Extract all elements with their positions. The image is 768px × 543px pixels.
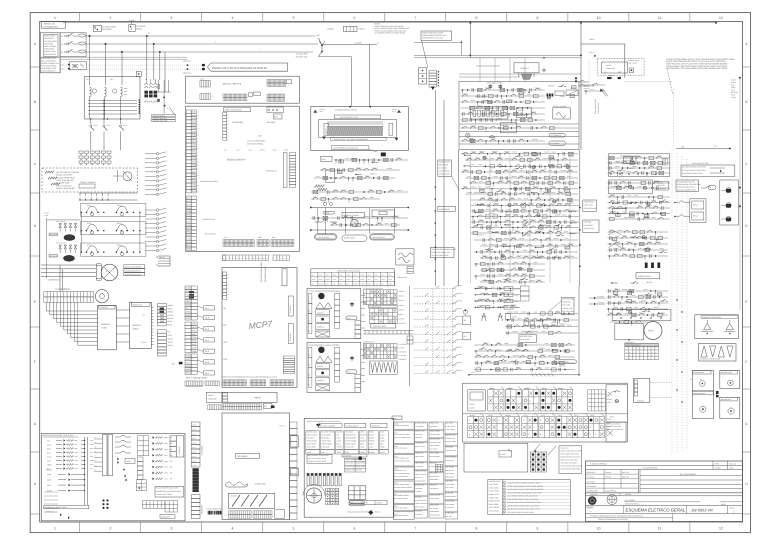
main disconnect switch column (60, 33, 86, 57)
table text columns (306, 431, 389, 450)
svg-text:COM: COM (192, 144, 197, 147)
svg-text:F: F (34, 360, 36, 364)
svg-text:NEUTRO NEUTRO LIGA TEMP: NEUTRO NEUTRO LIGA TEMP (682, 165, 707, 168)
svg-text:CHAVE NEUTRO BORNE COM REL CTR: CHAVE NEUTRO BORNE COM REL CTRL (508, 482, 541, 485)
svg-text:TERM: TERM (126, 460, 131, 463)
svg-text:PLACA B: PLACA B (289, 333, 292, 341)
protection dashed box (42, 168, 138, 192)
svg-text:PLUG SENSOR AGUA NIVEL: PLUG SENSOR AGUA NIVEL (156, 487, 179, 490)
svg-text:C08: C08 (394, 445, 397, 448)
diode rows lower-left (46, 469, 85, 493)
svg-text:A-ALARME: A-ALARME (201, 445, 204, 455)
svg-text:CTRL-8: CTRL-8 (568, 155, 574, 158)
svg-text:AQUEC 2: AQUEC 2 (317, 379, 324, 382)
bottom rail labels right (690, 378, 702, 381)
right margin vertical text (731, 77, 741, 99)
svg-text:24VCC SUPER BAIXA: 24VCC SUPER BAIXA (247, 140, 266, 143)
svg-text:RL-6: RL-6 (205, 361, 209, 364)
MCP1 box (222, 392, 277, 402)
interface connector strip extra (leftside col x191) (192, 424, 197, 467)
MCP pointer table (156, 256, 170, 266)
sensor module S4 (720, 397, 740, 418)
svg-text:RS-485: RS-485 (46, 469, 52, 472)
connector column J5 (dark cells) (158, 304, 175, 327)
TRIAC drive box (695, 315, 739, 339)
svg-text:CTRL AGUA: CTRL AGUA (584, 204, 594, 207)
svg-text:BOMBA TENS SENSOR CHAVE: BOMBA TENS SENSOR CHAVE (156, 490, 182, 493)
heater control block 1 (307, 289, 361, 339)
vertical feeders center (351, 23, 581, 150)
svg-text:NEUTRO AGUA: NEUTRO AGUA (520, 335, 533, 338)
calculation note box (559, 446, 582, 474)
svg-text:TENS: TENS (186, 372, 192, 375)
svg-text:PROJ/VDD: PROJ/VDD (587, 471, 596, 474)
net label 750 (171, 362, 182, 366)
svg-text:8: 8 (529, 406, 530, 409)
left legend text box 2 (40, 57, 60, 73)
svg-text:NEUT-8: NEUT-8 (646, 281, 652, 284)
svg-text:TX: TX (95, 460, 97, 462)
svg-text:STND 01: STND 01 (100, 306, 107, 309)
svg-text:PROGRAMADOR GER: PROGRAMADOR GER (260, 262, 263, 282)
svg-text:⊙ ENCODER: ⊙ ENCODER (55, 288, 70, 291)
ventilator stadium labels (315, 234, 395, 242)
company logo (outline) (607, 495, 617, 505)
svg-text:SENS: SENS (186, 368, 192, 371)
hot water table (681, 162, 735, 176)
svg-text:PROGRAMA BUS: PROGRAMA BUS (264, 266, 267, 282)
svg-text:MOTO: MOTO (187, 227, 193, 230)
svg-text:15: 15 (228, 133, 230, 135)
keyboard bar (371, 324, 396, 329)
switch taps left of REG (674, 201, 690, 217)
svg-text:12: 12 (198, 172, 200, 174)
vertical signal text column (594, 98, 600, 114)
svg-text:PPM: PPM (715, 462, 719, 465)
svg-text:12: 12 (228, 117, 230, 119)
sensor module S2 (720, 371, 740, 389)
sensor lower box contents (top-left of row4) (606, 422, 626, 442)
svg-text:TENS SENSOR BOMBA CHAVE: TENS SENSOR BOMBA CHAVE (431, 248, 457, 251)
right lower chains above motor (610, 319, 648, 326)
svg-text:L2: L2 (61, 43, 63, 46)
left columns of legend table (between x414-458) (415, 422, 458, 519)
svg-text:BI BI BI: BI BI BI (231, 495, 237, 498)
module MODULO MCP7-B box (186, 76, 300, 103)
svg-text:FASE: FASE (192, 438, 196, 440)
svg-text:MOTOR LIGA TERM MOTOR PROG TEM: MOTOR LIGA TERM MOTOR PROG TEMP (508, 501, 542, 504)
control box inner wires (461, 86, 579, 144)
svg-text:JOA TELEFONICA: JOA TELEFONICA (680, 473, 698, 476)
svg-text:1:1: 1:1 (589, 510, 592, 513)
svg-text:13: 13 (228, 114, 230, 116)
svg-text:AQUEC 1: AQUEC 1 (317, 365, 324, 368)
connector CN top (327, 27, 365, 32)
svg-text:TEMP: TEMP (192, 346, 198, 349)
svg-text:CLAVE: CLAVE (469, 407, 475, 410)
net labels COM6 FULL7 (589, 38, 595, 54)
svg-text:RL-1: RL-1 (205, 307, 209, 310)
svg-text:CP-4: CP-4 (123, 124, 127, 127)
svg-text:GERAL MOTOR BUS: GERAL MOTOR BUS (224, 109, 242, 112)
MCP7 box left pin cells (223, 272, 229, 300)
truth table extra ink (489, 388, 564, 390)
module MC16X55J box (222, 413, 290, 520)
motor feed wires (41, 265, 96, 291)
darlington triple dark bars (645, 263, 660, 269)
module right edge strip (290, 422, 299, 520)
main motor M~ (644, 322, 662, 340)
svg-text:B: B (745, 100, 747, 104)
wye junction node (296, 34, 379, 59)
svg-text:BOMBA GERAL: BOMBA GERAL (638, 275, 651, 278)
thermostat callout (583, 220, 599, 233)
svg-text:SAIDA SENSOR CABO BOMBA FASE T: SAIDA SENSOR CABO BOMBA FASE TEMP (508, 491, 543, 494)
svg-text:12: 12 (719, 16, 723, 20)
svg-text:TX: TX (95, 456, 97, 458)
relay field vertical links (470, 155, 570, 283)
svg-text:VIDE PAG 03: VIDE PAG 03 (266, 170, 277, 173)
svg-text:INVERSOR GERAL MOTOR: INVERSOR GERAL MOTOR (335, 109, 357, 112)
svg-text:TERM: TERM (186, 304, 192, 307)
svg-text:SAID: SAID (186, 300, 191, 303)
center TABELA grid (311, 269, 395, 286)
interface box extra texture (44, 439, 94, 512)
svg-text:CHAV: CHAV (374, 284, 378, 286)
circuit breaker DJ2 with label (129, 19, 146, 32)
terminal strip column lower (186, 196, 216, 251)
svg-text:INTERLIGACAO PAINEL COM O MCP: INTERLIGACAO PAINEL COM O MCP (43, 434, 75, 437)
svg-text:8: 8 (523, 419, 524, 422)
svg-text:SINAL GERAL: SINAL GERAL (205, 233, 216, 236)
svg-text:ALIM CHAVE: ALIM CHAVE (44, 35, 56, 38)
svg-text:BOMBA NIVEL: BOMBA NIVEL (439, 160, 450, 163)
svg-text:RL-7: RL-7 (205, 372, 209, 375)
svg-text:VALV: VALV (192, 447, 195, 449)
svg-text:VALV TERRA TERRA CTRL ALIM FAS: VALV TERRA TERRA CTRL ALIM FASE (508, 495, 539, 498)
svg-text:MODULO MCP7-B: MODULO MCP7-B (223, 83, 242, 86)
PL relay labels with leaders (197, 306, 214, 375)
svg-text:C-1 PROG: C-1 PROG (398, 343, 407, 346)
svg-text:5: 5 (293, 16, 295, 20)
svg-text:REDE: REDE (192, 442, 196, 444)
resistor group box GRUPO (470, 107, 508, 120)
svg-text:DISJUNT PRN: DISJUNT PRN (296, 53, 309, 56)
row interconnect wires (45, 212, 140, 278)
small slots (350, 501, 365, 506)
three-phase bus wires (86, 32, 318, 53)
svg-text:REL COM TEMP: REL COM TEMP (56, 182, 70, 185)
svg-text:TX: TX (95, 442, 97, 444)
svg-text:NO JOF/OPROAO: NO JOF/OPROAO (643, 467, 659, 470)
svg-text:GERA: GERA (186, 310, 192, 313)
svg-text:C23: C23 (394, 512, 397, 515)
svg-text:TEMP: TEMP (192, 350, 198, 353)
svg-text:SAID: SAID (192, 160, 197, 163)
terminal strip column mid (186, 150, 218, 193)
top right extra chains (584, 83, 605, 94)
transformer T1 (90, 87, 107, 119)
alarm box (553, 105, 571, 119)
svg-text:TECLADO GER: TECLADO GER (373, 325, 387, 328)
svg-text:1: 1 (54, 16, 56, 20)
svg-text:MOTO: MOTO (186, 314, 192, 317)
svg-text:CABO 2: CABO 2 (359, 28, 366, 31)
svg-text:TX: TX (95, 451, 97, 453)
molex note box (421, 31, 452, 68)
aux box left of motor (615, 324, 644, 341)
svg-text:24: 24 (198, 178, 200, 180)
svg-text:UTIL: UTIL (224, 236, 228, 239)
svg-text:REL: REL (381, 275, 384, 277)
processor box MCP7 (222, 268, 297, 388)
svg-text:TEMP: TEMP (353, 284, 357, 286)
svg-text:FIO BUS REL TEMP: FIO BUS REL TEMP (156, 493, 172, 496)
svg-text:RL-2: RL-2 (205, 316, 209, 319)
pump label box (636, 273, 660, 279)
company logo (filled) (586, 496, 597, 508)
top center bus wires extra (414, 43, 581, 82)
relay logic field (464, 153, 577, 281)
module MCP-7 inner extra (223, 113, 289, 152)
svg-text:LIGA NIVEL: LIGA NIVEL (44, 37, 54, 40)
svg-text:20-01-26: 20-01-26 (729, 462, 736, 465)
module bottom combs (228, 510, 284, 519)
svg-text:PLUG PLUG: PLUG PLUG (520, 338, 530, 341)
svg-text:BOMBA REL NEUTRO CTRL GERAL BU: BOMBA REL NEUTRO CTRL GERAL BUS (508, 508, 541, 511)
filter capacitors C1 C2 (487, 82, 504, 90)
svg-text:REL: REL (339, 160, 342, 163)
svg-text:10000010: 10000010 (506, 388, 512, 390)
svg-text:27: 27 (228, 298, 230, 300)
svg-text:U.S.Nome: U.S.Nome (587, 476, 595, 479)
transformer box (85, 77, 141, 120)
center switch rows (115, 435, 135, 481)
svg-text:RL-3: RL-3 (205, 328, 209, 331)
svg-text:NIVE: NIVE (374, 279, 377, 281)
svg-text:SAID: SAID (192, 177, 197, 180)
svg-text:VALV: VALV (367, 279, 370, 281)
svg-text:PESO: PESO (721, 503, 726, 506)
svg-text:MODULO X: MODULO X (133, 303, 143, 306)
svg-text:AGUA QUENTE GER: AGUA QUENTE GER (692, 162, 709, 165)
right section chains y286 (607, 287, 669, 316)
loopback wire box top-right (581, 44, 625, 78)
top bus wire (63, 22, 717, 24)
svg-text:C-3 MOTO: C-3 MOTO (398, 350, 407, 353)
junction dots on field bus (459, 150, 581, 286)
svg-text:FASE-1: FASE-1 (521, 211, 527, 214)
svg-text:E: E (745, 300, 747, 304)
strip part number text (186, 377, 208, 380)
vertical connectors mid (318, 208, 395, 234)
module strip extra pin texts (198, 112, 200, 194)
tick lines (363, 331, 413, 335)
zone D left stubs (458, 286, 463, 371)
bottom combs of strip column (185, 381, 219, 387)
legend rows (503, 480, 571, 515)
module MODULO MCP-7 box (186, 106, 300, 251)
interface section box (41, 433, 185, 521)
svg-text:10101110: 10101110 (489, 388, 495, 390)
svg-text:BORN: BORN (192, 460, 196, 462)
opto-diode rows left (47, 439, 85, 470)
svg-text:AQUEC 2: AQUEC 2 (317, 325, 324, 328)
svg-text:PROG: PROG (192, 326, 198, 329)
svg-text:NEUTRO MOTOR SENSOR: NEUTRO MOTOR SENSOR (56, 171, 80, 174)
svg-text:39b53a76a72423b884b9696532871: 39b53a76a72423b884b9696532871 012a2 a691… (223, 376, 277, 379)
sensor module S1 (692, 371, 713, 392)
tecla boxes row (612, 200, 668, 218)
svg-text:3: 3 (170, 16, 172, 20)
svg-text:NOT PROTECT TYPE: NOT PROTECT TYPE (340, 116, 359, 119)
small switch and oval (701, 186, 716, 190)
lamp indicators (466, 133, 495, 142)
svg-text:TR-2: TR-2 (110, 78, 114, 81)
svg-text:GERAL CHAVE PAINEL: GERAL CHAVE PAINEL (56, 187, 75, 190)
transformer T2 (113, 87, 123, 119)
svg-text:TENS CHAVE BUS: TENS CHAVE BUS (56, 184, 72, 187)
encoder disc (95, 290, 108, 303)
svg-text:GERA: GERA (353, 279, 357, 281)
corner junction box lower (606, 385, 627, 422)
svg-text:12/02: 12/02 (729, 467, 733, 470)
svg-text:CLORIMETRO: CLORIMETRO (44, 25, 58, 28)
svg-text:TENS: TENS (388, 279, 392, 281)
right section dense chains lower (608, 228, 669, 259)
relay chain vertical center (463, 310, 471, 340)
svg-text:01101110: 01101110 (541, 388, 547, 390)
right rail of zone D (578, 286, 580, 375)
svg-text:TECLA: TECLA (469, 403, 475, 406)
attention note box (155, 487, 184, 498)
svg-text:PORT: PORT (340, 279, 344, 281)
svg-text:TEMP: TEMP (192, 424, 196, 426)
svg-text:MODULO: MODULO (133, 324, 142, 327)
svg-text:BOMB: BOMB (326, 279, 330, 281)
svg-text:REL NIVEL ALIM LIGA BUS NIVEL: REL NIVEL ALIM LIGA BUS NIVEL (508, 511, 534, 514)
svg-text:SINAL GERAL BUS: SINAL GERAL BUS (594, 98, 597, 114)
svg-text:SAID: SAID (192, 433, 195, 435)
svg-text:ALARME: ALARME (178, 446, 181, 454)
svg-text:MOTOR SAIDA: MOTOR SAIDA (44, 40, 57, 43)
strip circles column B (145, 208, 166, 252)
table mid divider (463, 413, 628, 415)
svg-text:AQUECEDOR: AQUECEDOR (439, 208, 451, 211)
inverter section outer box (311, 107, 409, 151)
tecla legend cell (468, 390, 486, 411)
svg-text:23: 23 (198, 145, 200, 147)
warning text box right (676, 180, 701, 191)
svg-text:COM: COM (187, 220, 192, 223)
+24 diode taps (589, 295, 605, 305)
svg-text:NIVEL CHAVE: NIVEL CHAVE (44, 45, 56, 48)
main title row (586, 506, 743, 514)
svg-text:TEMP SAIDA: TEMP SAIDA (584, 200, 595, 203)
truth table right notes (607, 392, 614, 436)
signature scribbles box (396, 249, 414, 265)
svg-text:SENS: SENS (347, 279, 351, 281)
motor pump M1 (dark) (49, 220, 77, 240)
svg-text:COMPRESSOR GER: COMPRESSOR GER (125, 273, 142, 276)
svg-text:8: 8 (507, 392, 508, 395)
svg-text:CABO SAIDA FIO: CABO SAIDA FIO (41, 70, 56, 73)
svg-text:TX: TX (95, 446, 97, 448)
svg-text:ESQUEMA ELETRICO GERAL: ESQUEMA ELETRICO GERAL (626, 508, 686, 513)
svg-text:PAIN: PAIN (192, 137, 197, 140)
svg-text:APROVADO: APROVADO (587, 485, 597, 488)
bottom table banner (304, 416, 402, 517)
circuit breaker DJ1 with label (93, 25, 116, 31)
svg-text:CAP 1 MB2 FILTRO: CAP 1 MB2 FILTRO (487, 82, 504, 85)
svg-text:00010010: 00010010 (558, 388, 564, 390)
svg-text:C-4 AGUA: C-4 AGUA (398, 354, 407, 357)
heater relay box (438, 206, 456, 211)
svg-text:ALIM ALIM: ALIM ALIM (439, 166, 448, 169)
svg-text:4: 4 (231, 527, 233, 531)
title row 2 (586, 467, 743, 470)
svg-text:MCP-7 233X848 SE/RV: MCP-7 233X848 SE/RV (186, 377, 208, 380)
dashed junction box right (598, 59, 672, 82)
svg-text:15: 15 (228, 274, 230, 276)
left connector blocks (center) (419, 68, 440, 90)
REGISTR callout box (438, 160, 459, 190)
svg-text:CONDENSADOR AR: CONDENSADOR AR (125, 270, 142, 273)
svg-text:AQUEC 1: AQUEC 1 (317, 311, 324, 314)
svg-text:REDE: REDE (186, 365, 192, 368)
svg-text:ALL ASPIRC: ALL ASPIRC (625, 499, 636, 502)
observation band (307, 454, 367, 472)
programmer vertical text (260, 262, 287, 286)
MCP7 bottom pin row (223, 376, 294, 386)
relay rows top (continuation) (612, 291, 671, 320)
svg-text:REDE-4: REDE-4 (548, 84, 554, 87)
svg-text:CABO TENS MOTOR: CABO TENS MOTOR (56, 179, 74, 182)
motor pump M2 (dark) (49, 242, 77, 262)
main motor M3 (101, 264, 118, 281)
svg-text:CLORADOR: CLORADOR (232, 121, 243, 124)
bottom rail wire (468, 371, 580, 377)
svg-text:CTRL: CTRL (187, 224, 192, 227)
svg-text:C19: C19 (394, 468, 397, 471)
center-right vertical rail (409, 286, 411, 386)
svg-text:CAIXA: CAIXA (208, 394, 214, 397)
svg-text:C-5 MOTO: C-5 MOTO (398, 358, 407, 361)
relay field dense chains (461, 150, 578, 197)
svg-text:ARREDE GER: ARREDE GER (255, 483, 267, 486)
svg-text:CTRL: CTRL (192, 157, 197, 160)
svg-text:C-2 FIO: C-2 FIO (398, 347, 405, 350)
truth table groups row1 (488, 386, 606, 411)
svg-text:VOTAR: VOTAR (500, 453, 506, 456)
svg-text:8: 8 (595, 433, 596, 436)
chain row G (485, 359, 577, 368)
svg-text:VIA PRINCIPAL: VIA PRINCIPAL (587, 490, 599, 493)
svg-text:ATUALIZACAO DO SISTEMA: ATUALIZACAO DO SISTEMA (347, 511, 370, 514)
svg-text:10: 10 (198, 115, 200, 117)
svg-text:REDE: REDE (360, 275, 364, 277)
svg-text:17: 17 (198, 191, 200, 193)
svg-text:8: 8 (498, 419, 499, 422)
svg-text:ALIM: ALIM (187, 200, 192, 203)
svg-text:12: 12 (719, 527, 723, 531)
svg-text:11: 11 (658, 16, 662, 20)
svg-text:10: 10 (597, 16, 601, 20)
svg-text:GERA: GERA (333, 275, 337, 277)
svg-text:8: 8 (590, 426, 591, 429)
svg-text:COP: COP (223, 358, 228, 361)
IO table 2 small (370, 309, 398, 324)
